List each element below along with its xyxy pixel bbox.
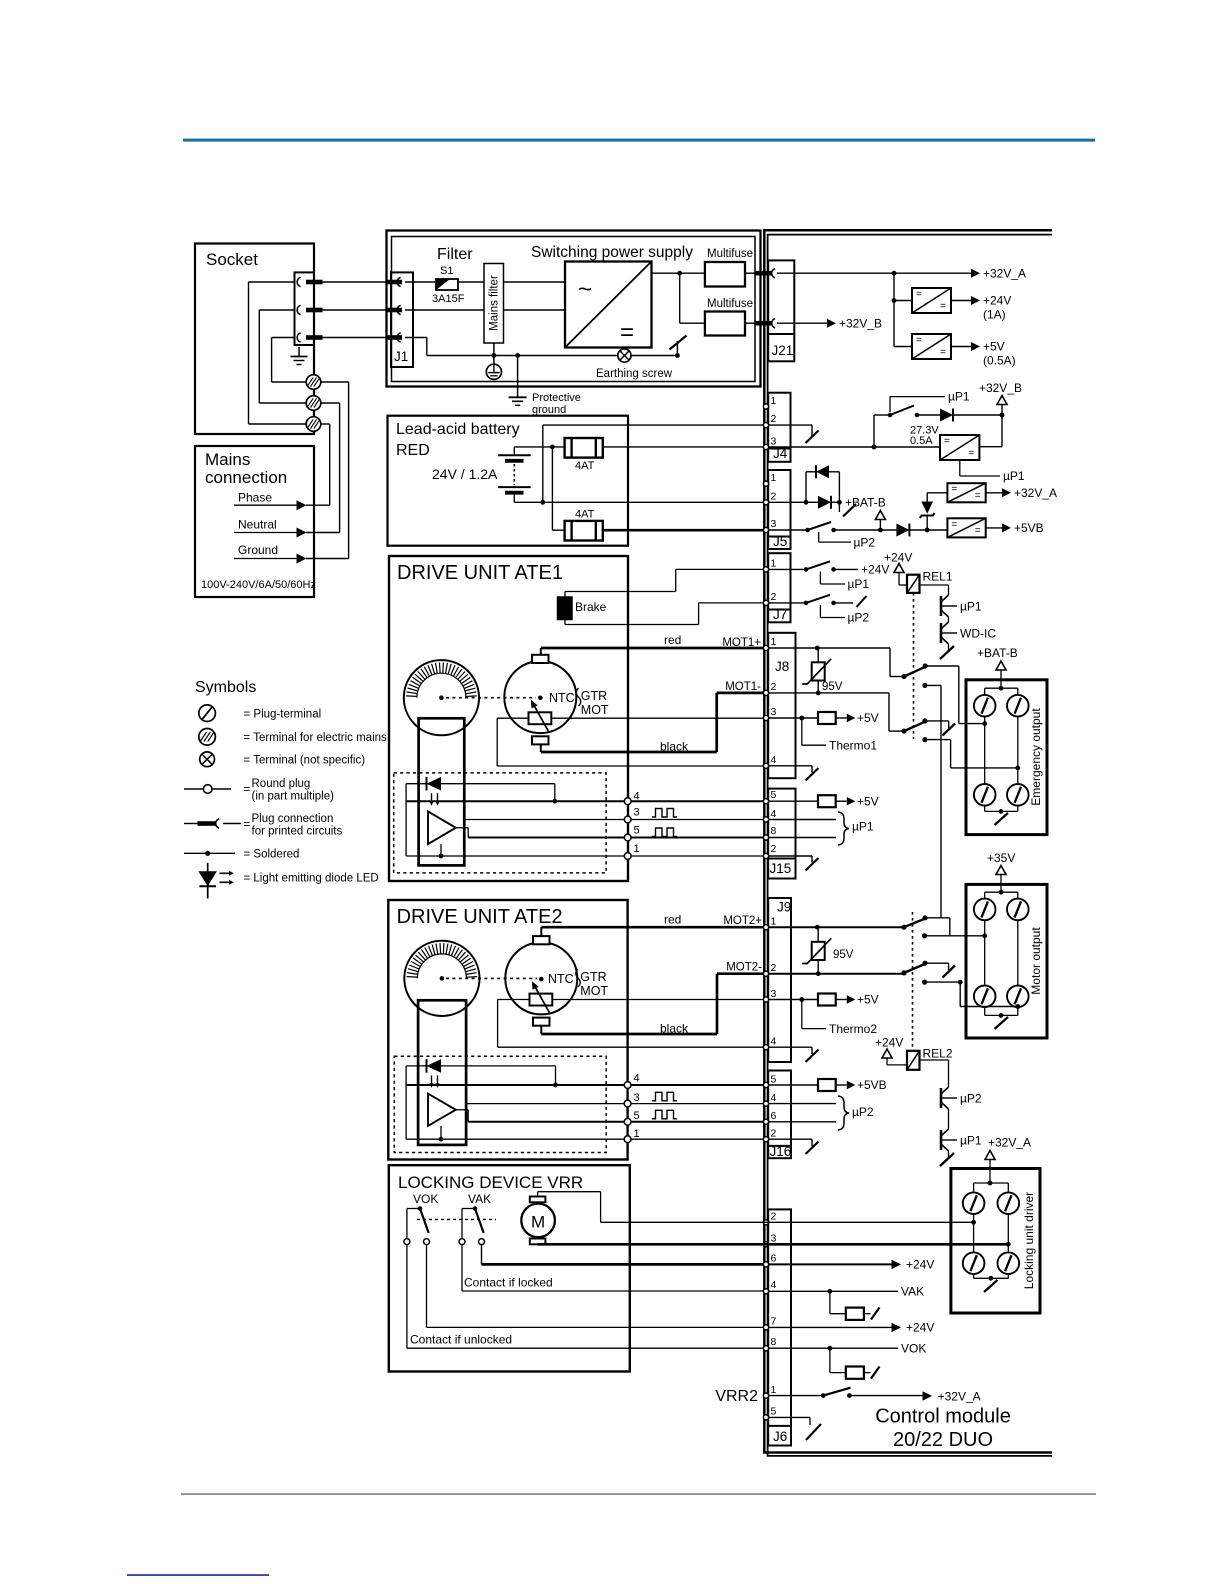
red wire ATE2: [540, 927, 542, 936]
svg-text:3: 3: [634, 1092, 640, 1104]
J8 pin2 circuit: [768, 692, 889, 694]
svg-text:DRIVE UNIT ATE2: DRIVE UNIT ATE2: [397, 906, 563, 928]
svg-text:(in part multiple): (in part multiple): [252, 791, 335, 803]
svg-text:MOT: MOT: [581, 703, 609, 717]
svg-text:µP1: µP1: [960, 600, 982, 614]
svg-text:1: 1: [634, 1128, 640, 1140]
VOK wires: [426, 1245, 428, 1328]
svg-text:Control module: Control module: [875, 1406, 1011, 1428]
varistor 95V J8: [817, 648, 819, 662]
plug connection: [297, 305, 300, 314]
svg-text:3: 3: [771, 1233, 777, 1245]
svg-text:4AT: 4AT: [575, 509, 595, 521]
locking device VRR box: [389, 1165, 630, 1371]
svg-text:J16: J16: [770, 1144, 792, 1159]
svg-text:MOT2-: MOT2-: [726, 962, 762, 974]
svg-text:DRIVE UNIT ATE1: DRIVE UNIT ATE1: [397, 562, 563, 584]
svg-text:µP1: µP1: [848, 577, 870, 591]
Emergency output box: [966, 680, 1047, 835]
plug-terminal symbol: [199, 705, 216, 722]
opto amplifier: [428, 811, 456, 844]
svg-text:8: 8: [771, 1336, 777, 1348]
connector J6: [768, 1209, 791, 1445]
svg-text:Contact if locked: Contact if locked: [464, 1276, 553, 1290]
svg-text:95V: 95V: [833, 949, 854, 961]
svg-text:µP2: µP2: [960, 1092, 982, 1106]
svg-text:+24V: +24V: [861, 563, 889, 577]
svg-text:MOT1-: MOT1-: [725, 681, 761, 693]
svg-text:= Soldered: = Soldered: [244, 849, 300, 861]
svg-text:µP1: µP1: [1003, 469, 1025, 483]
svg-text:+32V_B: +32V_B: [839, 317, 882, 331]
svg-text:3: 3: [771, 988, 777, 1000]
J8 pin4 stub: [768, 765, 812, 767]
control module frame: [764, 230, 1052, 1452]
svg-text:=: =: [968, 448, 974, 459]
svg-text:2: 2: [771, 1128, 777, 1140]
svg-text:Plug connection: Plug connection: [252, 813, 334, 825]
svg-text:=: =: [244, 784, 251, 796]
soldered symbol: [184, 852, 235, 854]
svg-text:24V / 1.2A: 24V / 1.2A: [432, 466, 498, 482]
socket internal wires: [249, 281, 295, 283]
svg-text:VOK: VOK: [901, 1342, 926, 1356]
PSU to multifuses: [652, 272, 705, 274]
svg-text:J9: J9: [777, 900, 791, 915]
black wire ATE2: [540, 1026, 542, 1034]
plug connection: [297, 333, 300, 342]
round plug symbol: [184, 788, 203, 790]
PSU block: [565, 262, 652, 348]
svg-text:4: 4: [771, 1092, 777, 1104]
svg-text:+35V: +35V: [987, 851, 1015, 865]
NTC symbol: [530, 994, 553, 1006]
svg-text:3A15F: 3A15F: [432, 293, 465, 305]
opto dashed box: [394, 773, 606, 873]
svg-text:µP1: µP1: [852, 820, 874, 834]
svg-text:=: =: [244, 819, 251, 831]
J9 pin1 circuit: [768, 926, 904, 928]
J6-3 wire to driver: [764, 1243, 1008, 1246]
svg-text:Mains: Mains: [205, 450, 250, 469]
svg-text:3: 3: [771, 436, 777, 448]
J15 pin5 +5V: [768, 800, 818, 802]
dc-dc 24V: [892, 298, 897, 303]
svg-text:+5V: +5V: [983, 340, 1005, 354]
svg-text:µP2: µP2: [852, 1105, 874, 1119]
svg-text:REL2: REL2: [923, 1047, 953, 1061]
svg-text:1: 1: [771, 558, 777, 570]
svg-text:RED: RED: [396, 442, 430, 459]
socket connector: [295, 272, 315, 345]
J8 pin3 +5V: [768, 717, 818, 719]
svg-text:+5V: +5V: [857, 993, 879, 1007]
J15 uP1 brace: [768, 819, 836, 821]
svg-text:GTR: GTR: [581, 689, 607, 703]
svg-text:µP2: µP2: [854, 536, 876, 550]
svg-text:2: 2: [771, 962, 777, 974]
Mains connection box: [195, 446, 314, 597]
svg-text:µP1: µP1: [948, 390, 970, 404]
J9 pin2 circuit: [768, 973, 904, 975]
opto LED: [426, 1059, 428, 1073]
svg-text:=: =: [940, 347, 946, 358]
NTC wires ATE2: [498, 999, 530, 1001]
svg-text:Switching power supply: Switching power supply: [531, 244, 693, 261]
svg-text:4: 4: [634, 790, 640, 802]
svg-text:4: 4: [771, 808, 777, 820]
plug connection symbol: [184, 823, 198, 825]
svg-text:VAK: VAK: [468, 1192, 491, 1206]
connector J16: [768, 1071, 791, 1159]
svg-text:2: 2: [771, 1211, 777, 1223]
opto amplifier: [428, 1094, 456, 1126]
Motor output box: [966, 884, 1047, 1038]
stator ring: [404, 660, 479, 735]
svg-text:+24V: +24V: [875, 1036, 903, 1050]
sensor module rect: [419, 718, 465, 865]
connector J4: [768, 393, 790, 462]
svg-text:4AT: 4AT: [575, 460, 595, 472]
svg-text:+5VB: +5VB: [857, 1078, 887, 1092]
svg-text:0.5A: 0.5A: [910, 435, 933, 447]
svg-text:J21: J21: [772, 343, 794, 358]
svg-text:+32V_A: +32V_A: [938, 1390, 981, 1404]
plug connection: [297, 277, 300, 286]
J6-7 +24V: [768, 1326, 892, 1328]
sensor module rect ATE2: [418, 1000, 466, 1145]
svg-text:REL1: REL1: [923, 570, 953, 584]
svg-text:Motor output: Motor output: [1029, 927, 1043, 995]
svg-text:connection: connection: [205, 468, 287, 487]
changeover sw2: [901, 729, 906, 734]
svg-text:=: =: [951, 484, 957, 495]
svg-text:Neutral: Neutral: [238, 518, 277, 532]
svg-text:+5V: +5V: [857, 795, 879, 809]
zener diode: [926, 493, 928, 502]
svg-text:(0.5A): (0.5A): [983, 354, 1016, 368]
svg-text:J5: J5: [773, 534, 787, 549]
svg-text:+24V: +24V: [906, 1321, 934, 1335]
svg-text:Brake: Brake: [575, 600, 607, 614]
svg-text:2: 2: [771, 413, 777, 425]
power supply unit box: [387, 231, 761, 387]
svg-text:J8: J8: [775, 659, 789, 674]
svg-text:2: 2: [771, 843, 777, 855]
svg-text:VAK: VAK: [901, 1285, 924, 1299]
svg-text:Protective: Protective: [532, 392, 581, 404]
svg-text:black: black: [660, 1022, 689, 1036]
svg-text:Thermo1: Thermo1: [829, 739, 877, 753]
protective ground: [515, 353, 520, 358]
svg-text:2: 2: [771, 491, 777, 503]
svg-text:MOT2+: MOT2+: [723, 915, 762, 927]
svg-text:4: 4: [771, 1279, 777, 1291]
earthing screw: [618, 349, 631, 362]
dc-dc 32VA: [947, 483, 985, 502]
footer link rule: [127, 1574, 269, 1576]
locking motor M: [521, 1204, 555, 1238]
dc-dc uP1: [940, 435, 979, 460]
svg-text:+BAT-B: +BAT-B: [845, 496, 886, 510]
svg-text:= Light emitting diode LED: = Light emitting diode LED: [244, 873, 379, 885]
svg-text:3: 3: [634, 807, 640, 819]
opto wires: [406, 1084, 764, 1086]
svg-text:red: red: [664, 633, 681, 647]
VAK wires: [481, 1245, 483, 1265]
svg-text:Socket: Socket: [206, 250, 258, 269]
black wire: [540, 744, 542, 752]
svg-text:J15: J15: [770, 861, 792, 876]
svg-text:µP1: µP1: [960, 1134, 982, 1148]
svg-text:= Plug-terminal: = Plug-terminal: [244, 709, 322, 721]
svg-text:+5VB: +5VB: [1014, 521, 1044, 535]
svg-text:for printed circuits: for printed circuits: [252, 826, 343, 838]
connector J9: [768, 898, 791, 1062]
svg-text:µP2: µP2: [848, 611, 870, 625]
svg-text:Filter: Filter: [437, 246, 473, 263]
drive unit ATE1 box: [389, 556, 628, 881]
svg-text:+BAT-B: +BAT-B: [977, 646, 1018, 660]
svg-text:J4: J4: [773, 446, 788, 461]
svg-text:red: red: [664, 913, 681, 927]
terminals for electric mains: [306, 375, 321, 390]
battery wiring: [513, 447, 515, 455]
PE circle: [493, 343, 495, 364]
svg-text:MOT1+: MOT1+: [722, 637, 761, 649]
svg-text:Ground: Ground: [238, 543, 278, 557]
motor wires: [537, 1192, 539, 1197]
svg-text:NTC: NTC: [548, 972, 574, 986]
svg-text:5: 5: [634, 825, 640, 837]
svg-text:S1: S1: [440, 265, 453, 277]
svg-text:Thermo2: Thermo2: [829, 1022, 877, 1036]
J6-5 stub: [768, 1416, 810, 1418]
terminal for electric mains symbol: [199, 729, 216, 746]
svg-text:(1A): (1A): [983, 308, 1006, 322]
wires to mains connection: [321, 381, 349, 383]
svg-text:6: 6: [771, 1110, 777, 1122]
ATE2 round plugs: [624, 1082, 631, 1089]
svg-text:Emergency output: Emergency output: [1029, 708, 1043, 806]
changeover sw1: [901, 674, 906, 679]
svg-text:LOCKING DEVICE VRR: LOCKING DEVICE VRR: [398, 1173, 583, 1192]
relay link dashed 1: [913, 593, 915, 739]
NTC symbol: [529, 712, 552, 724]
bottom gray rule: [181, 1493, 1096, 1495]
svg-text:+5V: +5V: [857, 711, 879, 725]
J6-8 VOK: [768, 1347, 898, 1349]
svg-text:=: =: [916, 335, 922, 346]
svg-text:Round plug: Round plug: [252, 778, 311, 790]
svg-text:20/22 DUO: 20/22 DUO: [893, 1429, 993, 1451]
J7 pin1 switch: [768, 568, 806, 570]
lead-acid battery box: [388, 416, 629, 546]
connector J15: [768, 789, 795, 879]
svg-text:1: 1: [771, 636, 777, 648]
brake: [558, 597, 573, 620]
svg-text:Lead-acid battery: Lead-acid battery: [396, 421, 520, 438]
svg-text:+32V_A: +32V_A: [983, 267, 1026, 281]
ground bus: [405, 337, 427, 339]
J9 pin3 +5V: [768, 999, 818, 1001]
changeover sw3: [901, 925, 906, 930]
stator ring: [404, 941, 479, 1016]
fuse 4AT upper: [565, 438, 603, 458]
mains filter: [484, 264, 504, 344]
J4 pin2 stub: [768, 424, 812, 426]
Socket box: [195, 244, 314, 435]
svg-text:NTC: NTC: [549, 691, 575, 705]
svg-text:+24V: +24V: [983, 294, 1011, 308]
J1 connector: [391, 272, 413, 367]
svg-text:5: 5: [771, 1406, 777, 1418]
svg-text:100V-240V/6A/50/60Hz: 100V-240V/6A/50/60Hz: [201, 579, 316, 591]
terminal not specific symbol: [200, 752, 215, 767]
Locking unit driver box: [951, 1169, 1040, 1314]
svg-text:3: 3: [771, 706, 777, 718]
svg-text:+32V_A: +32V_A: [988, 1136, 1031, 1150]
svg-text:=: =: [975, 525, 981, 536]
svg-text:1: 1: [771, 1384, 777, 1396]
svg-text:=: =: [620, 319, 634, 346]
+32V_B output: [777, 322, 827, 324]
J5 pin3 battery switch: [768, 529, 808, 531]
connector J8: [768, 633, 795, 778]
svg-text:1: 1: [771, 472, 777, 484]
opto dashed box ATE2: [394, 1056, 606, 1152]
svg-text:2: 2: [771, 681, 777, 693]
J5 pin2 diodes: [768, 501, 806, 503]
top blue rule: [183, 139, 1095, 142]
svg-text:J1: J1: [394, 349, 408, 364]
svg-text:J7: J7: [773, 607, 787, 622]
svg-text:J6: J6: [773, 1429, 787, 1444]
svg-text:VOK: VOK: [413, 1192, 438, 1206]
svg-text:Symbols: Symbols: [195, 679, 256, 696]
J8 pin1 circuit: [768, 647, 890, 649]
svg-text:=: =: [951, 519, 957, 530]
svg-text:1: 1: [634, 843, 640, 855]
svg-text:+32V_A: +32V_A: [1014, 486, 1057, 500]
battery symbol: [498, 454, 531, 456]
svg-text:1: 1: [771, 916, 777, 928]
svg-text:7: 7: [771, 1316, 777, 1328]
J16 uP2 brace: [768, 1103, 836, 1105]
J6-1 +32V_A switch: [768, 1395, 823, 1397]
J6-2 wire to driver: [764, 1221, 974, 1223]
svg-text:black: black: [660, 740, 689, 754]
red wire: [540, 648, 542, 655]
J16 pin2 stub: [768, 1138, 812, 1140]
ground symbol: [298, 347, 300, 357]
varistor 95V J9: [817, 927, 819, 942]
J16 pin5 +5VB: [768, 1084, 818, 1086]
J6-4 VAK: [768, 1290, 898, 1292]
fuse 4AT lower: [565, 521, 603, 541]
svg-text:1: 1: [771, 395, 777, 407]
NTC wires: [497, 717, 528, 719]
connector J7: [768, 553, 790, 622]
drive unit ATE2 box: [388, 900, 627, 1160]
svg-text:4: 4: [771, 754, 777, 766]
svg-text:GTR: GTR: [580, 970, 606, 984]
svg-text:4: 4: [634, 1073, 640, 1085]
svg-text:=: =: [916, 289, 922, 300]
svg-text:Mains filter: Mains filter: [489, 275, 501, 331]
svg-text:95V: 95V: [822, 681, 843, 693]
svg-text:Locking unit driver: Locking unit driver: [1022, 1192, 1036, 1289]
svg-text:Multifuse: Multifuse: [707, 248, 753, 260]
connector J5: [768, 470, 790, 549]
chassis stub: [675, 353, 680, 358]
J4 pin3 charger: [768, 446, 940, 448]
svg-text:= Terminal for electric mains: = Terminal for electric mains: [244, 732, 388, 744]
svg-text:+24V: +24V: [906, 1258, 934, 1272]
svg-text:5: 5: [771, 1074, 777, 1086]
opto wires: [406, 800, 764, 802]
J9 pin4 stub: [768, 1046, 812, 1048]
svg-text:Contact if unlocked: Contact if unlocked: [410, 1333, 512, 1347]
svg-text:ground: ground: [532, 404, 566, 416]
svg-text:= Terminal (not specific): = Terminal (not specific): [244, 755, 366, 767]
svg-text:=: =: [940, 301, 946, 312]
svg-text:5: 5: [634, 1110, 640, 1122]
dc-dc 5V: [894, 346, 912, 348]
svg-text:MOT: MOT: [580, 984, 608, 998]
svg-text:3: 3: [771, 518, 777, 530]
mech link dashed: [417, 1218, 496, 1220]
J6-6 +24V: [768, 1263, 892, 1265]
svg-text:+24V: +24V: [884, 551, 912, 565]
transistor WD-IC: [940, 623, 943, 643]
svg-text:Earthing screw: Earthing screw: [596, 368, 673, 380]
opto LED: [426, 777, 428, 791]
J21 outputs: [777, 272, 971, 274]
relay link dashed 2: [912, 912, 914, 1050]
svg-text:~: ~: [578, 276, 592, 303]
ATE1 round plugs: [624, 798, 631, 805]
svg-text:+32V_B: +32V_B: [979, 381, 1022, 395]
svg-text:VRR2: VRR2: [715, 1388, 758, 1405]
svg-text:WD-IC: WD-IC: [960, 627, 996, 641]
connector J21: [768, 260, 794, 361]
motor GTR/MOT: [504, 661, 576, 733]
changeover sw4: [901, 970, 906, 975]
svg-text:=: =: [944, 436, 950, 447]
dc-dc 5VB: [947, 518, 985, 537]
J7 pin2 switch: [768, 602, 806, 604]
svg-text:4: 4: [771, 1036, 777, 1048]
motor GTR/MOT: [505, 942, 577, 1014]
svg-text:M: M: [531, 1213, 545, 1232]
svg-text:=: =: [975, 490, 981, 501]
svg-text:6: 6: [771, 1253, 777, 1265]
LED symbol: [207, 863, 209, 899]
svg-text:Multifuse: Multifuse: [707, 298, 753, 310]
svg-text:8: 8: [771, 825, 777, 837]
svg-text:2: 2: [771, 591, 777, 603]
svg-text:5: 5: [771, 789, 777, 801]
svg-text:Phase: Phase: [238, 491, 272, 505]
transistor uP1: [940, 596, 943, 616]
J15 pin2 stub: [768, 855, 812, 857]
